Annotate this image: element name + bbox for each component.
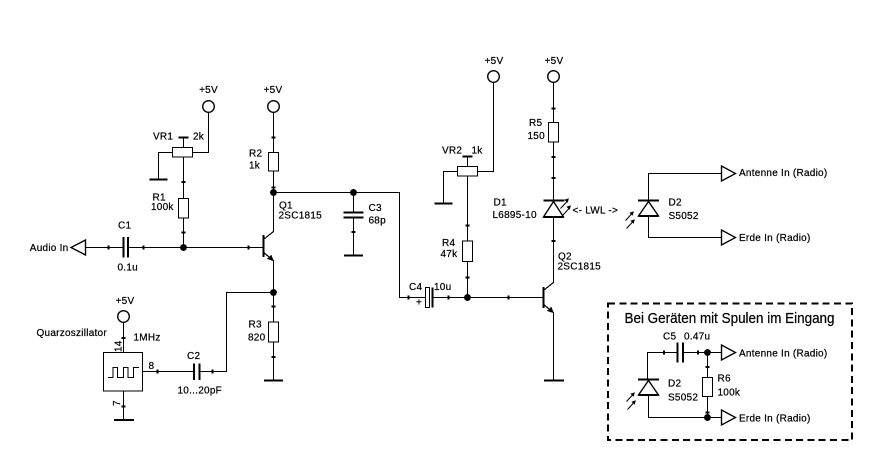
pin tick C2 right bbox=[212, 370, 214, 374]
wire D2 anode to Erde port bbox=[649, 216, 722, 238]
ground oscillator bbox=[114, 419, 134, 421]
wire Antenne node to R6 bbox=[707, 353, 709, 378]
svg-text:2k: 2k bbox=[193, 132, 205, 143]
svg-text:Audio In: Audio In bbox=[30, 243, 69, 254]
resistor R6 100k bbox=[703, 374, 741, 399]
svg-text:R5: R5 bbox=[529, 118, 542, 129]
svg-text:100k: 100k bbox=[718, 388, 741, 399]
pin tick D1 bottom bbox=[552, 240, 556, 242]
wire C5 to Antenne node bbox=[683, 352, 722, 354]
wire oscillator pin 8 to C2 bbox=[143, 371, 194, 373]
pin tick VR1 wiper bbox=[182, 181, 186, 183]
pin tick R5 top bbox=[552, 108, 556, 110]
svg-text:C2: C2 bbox=[187, 351, 200, 362]
pin tick R3 top bbox=[272, 306, 276, 308]
pin tick R2 top bbox=[272, 137, 276, 139]
pin tick R2 bottom bbox=[272, 187, 276, 189]
pin tick R1 bottom bbox=[182, 232, 186, 234]
pin tick C5 right bbox=[697, 351, 699, 355]
pin tick VR2 wiper bbox=[466, 225, 470, 227]
svg-text:+5V: +5V bbox=[485, 56, 504, 67]
capacitor C1 bbox=[118, 221, 138, 274]
svg-text:1k: 1k bbox=[472, 146, 484, 157]
potentiometer VR1 2k bbox=[153, 132, 205, 158]
pin tick oscillator pin 14 bbox=[122, 337, 126, 339]
svg-text:D1: D1 bbox=[494, 198, 507, 209]
pin tick R5 bottom bbox=[552, 156, 556, 158]
resistor R3 820 bbox=[248, 320, 279, 344]
capacitor C2 10...20pF bbox=[178, 351, 223, 397]
power +5V (oscillator) bbox=[116, 296, 135, 322]
wire oscillator pin 7 to ground bbox=[123, 391, 125, 420]
junction node Q1 emitter bbox=[270, 289, 277, 296]
svg-text:R6: R6 bbox=[718, 374, 731, 385]
svg-text:Quarzoszillator: Quarzoszillator bbox=[37, 328, 108, 339]
capacitor C5 0.47u bbox=[663, 332, 710, 363]
LED D1 L6895-10 bbox=[493, 198, 565, 222]
junction node Q1 collector bbox=[270, 189, 277, 196]
transistor Q2 2SC1815 bbox=[544, 252, 602, 381]
port Erde In (Radio) bbox=[722, 230, 811, 245]
svg-text:Bei Geräten mit Spulen im Eing: Bei Geräten mit Spulen im Eingang bbox=[625, 310, 835, 327]
svg-text:1k: 1k bbox=[249, 161, 261, 172]
wire collector node to C4 corner bbox=[274, 193, 426, 298]
light arrows D2 box bbox=[627, 392, 636, 409]
OUT-SECTION bbox=[626, 166, 828, 245]
svg-text:10...20pF: 10...20pF bbox=[178, 386, 223, 397]
wire D2 cathode to Antenne port bbox=[649, 174, 722, 201]
svg-text:0.47u: 0.47u bbox=[684, 332, 710, 343]
wire R5 bottom to D1 bbox=[553, 142, 555, 200]
pin tick C3 bottom bbox=[352, 231, 356, 233]
pin tick C5 left bbox=[663, 351, 665, 355]
ground VR1 bbox=[150, 179, 168, 181]
wire +5V to R2 bbox=[273, 113, 275, 153]
svg-text:S5052: S5052 bbox=[669, 211, 699, 222]
wire emitter node to R3 bbox=[273, 293, 275, 323]
pin tick C1 left bbox=[108, 246, 110, 250]
pin tick Q1 base bbox=[248, 246, 250, 250]
port Erde In (Radio) box bbox=[722, 410, 811, 425]
svg-text:S5052: S5052 bbox=[668, 393, 698, 404]
svg-text:Erde In (Radio): Erde In (Radio) bbox=[739, 414, 811, 425]
wire C1 to Q1 base bbox=[129, 247, 263, 249]
svg-text:+: + bbox=[416, 298, 422, 309]
wire Audio In to C1 bbox=[86, 247, 124, 249]
wire +5V to R5 bbox=[553, 83, 555, 123]
junction node Antenne bbox=[704, 349, 711, 356]
BOX-SECTION bbox=[608, 304, 852, 441]
svg-text:D2: D2 bbox=[668, 379, 681, 390]
wire box left top bbox=[648, 353, 678, 380]
potentiometer VR2 1k bbox=[442, 146, 483, 177]
light arrows D2 bbox=[626, 211, 635, 228]
wire R3 bottom to ground bbox=[273, 342, 275, 380]
dashed frame Bei Geraeten box bbox=[608, 304, 852, 441]
wire C3 bottom to ground bbox=[353, 218, 355, 256]
svg-text:C4: C4 bbox=[409, 282, 422, 293]
svg-text:R4: R4 bbox=[442, 238, 455, 249]
svg-text:<- LWL ->: <- LWL -> bbox=[573, 206, 619, 217]
svg-text:+5V: +5V bbox=[116, 296, 135, 307]
junction node R1/C1 bbox=[180, 244, 187, 251]
svg-text:1MHz: 1MHz bbox=[134, 333, 161, 344]
ground R3 bbox=[264, 380, 283, 382]
pin tick Q2 base bbox=[508, 296, 510, 300]
svg-text:Erde In (Radio): Erde In (Radio) bbox=[739, 233, 811, 244]
svg-text:68p: 68p bbox=[369, 216, 387, 227]
ground Q2 bbox=[544, 380, 564, 382]
pin tick R6 top bbox=[706, 366, 710, 368]
wire VR1 right to +5V bbox=[193, 113, 209, 153]
svg-text:VR1: VR1 bbox=[153, 132, 173, 143]
svg-text:+5V: +5V bbox=[199, 85, 218, 96]
svg-text:820: 820 bbox=[248, 333, 266, 344]
pin tick D1 top bbox=[552, 177, 556, 179]
power +5V (VR1) bbox=[199, 85, 218, 112]
wire R4 top to VR2 wiper bbox=[467, 176, 469, 241]
Q1-SECTION bbox=[248, 85, 322, 381]
pin tick R4 bottom bbox=[466, 277, 470, 279]
wire VR2 left to ground bbox=[444, 172, 458, 204]
photodiode D2 S5052 box bbox=[638, 379, 698, 404]
svg-text:150: 150 bbox=[528, 131, 546, 142]
OSC-SECTION bbox=[37, 293, 274, 421]
transistor Q1 2SC1815 bbox=[264, 193, 323, 293]
pin tick C4 left bbox=[408, 296, 410, 300]
svg-text:Antenne In (Radio): Antenne In (Radio) bbox=[739, 349, 827, 360]
svg-text:R3: R3 bbox=[249, 320, 262, 331]
photodiode D2 S5052 bbox=[638, 198, 699, 223]
resistor R1 100k bbox=[151, 193, 189, 219]
svg-text:+5V: +5V bbox=[264, 85, 283, 96]
port Antenne In (Radio) bbox=[722, 166, 828, 181]
wire D1 to Q2 collector bbox=[553, 217, 555, 282]
svg-text:R2: R2 bbox=[249, 149, 262, 160]
svg-text:L6895-10: L6895-10 bbox=[493, 210, 537, 221]
power +5V (VR2) bbox=[485, 56, 504, 82]
wire C4 right to Q2 base bbox=[433, 297, 544, 299]
LED-SECTION bbox=[493, 56, 619, 381]
wire R6 bottom to Erde node bbox=[707, 397, 709, 418]
svg-text:C5: C5 bbox=[663, 332, 676, 343]
wire +5V to oscillator pin 14 bbox=[123, 323, 125, 353]
resistor R2 1k bbox=[249, 149, 279, 172]
svg-text:7: 7 bbox=[112, 400, 123, 406]
ground C3 bbox=[344, 255, 363, 257]
oscillator U1 Quarzoszillator bbox=[37, 328, 143, 391]
resistor R5 150 bbox=[528, 118, 559, 142]
wire VR1 left to ground bbox=[159, 153, 173, 179]
wire D2 anode to Erde wire bbox=[649, 395, 722, 418]
svg-text:Antenne In (Radio): Antenne In (Radio) bbox=[739, 168, 827, 179]
svg-text:8: 8 bbox=[149, 361, 155, 372]
port Audio In bbox=[30, 240, 86, 255]
port Antenne In (Radio) box bbox=[722, 345, 828, 360]
pin tick C1 right bbox=[143, 246, 145, 250]
svg-text:+5V: +5V bbox=[545, 56, 564, 67]
resistor R4 47k bbox=[441, 238, 473, 262]
wire C3 top bbox=[353, 193, 355, 213]
capacitor C4 10u electrolytic bbox=[409, 282, 451, 309]
svg-text:VR2: VR2 bbox=[442, 146, 462, 157]
junction node Erde bbox=[704, 414, 711, 421]
svg-text:10u: 10u bbox=[434, 282, 451, 293]
junction node C3 top bbox=[350, 189, 357, 196]
capacitor C3 68p bbox=[344, 203, 387, 227]
svg-text:2SC1815: 2SC1815 bbox=[279, 211, 323, 222]
wire R1 top to VR1 wiper bbox=[183, 157, 185, 199]
wire R4 bottom bbox=[467, 262, 469, 298]
ground VR2 bbox=[435, 203, 453, 205]
power +5V (R2) bbox=[264, 85, 283, 112]
svg-text:D2: D2 bbox=[669, 198, 682, 209]
MID-SECTION bbox=[274, 56, 544, 309]
svg-text:100k: 100k bbox=[151, 202, 174, 213]
INPUT-SECTION bbox=[30, 85, 263, 274]
wire R2 bottom to collector node bbox=[273, 171, 275, 193]
wire C2 to Q1 emitter node bbox=[200, 293, 274, 372]
svg-text:14: 14 bbox=[114, 340, 125, 352]
power +5V (R5) bbox=[545, 56, 564, 82]
wire VR2 right to +5V bbox=[478, 83, 494, 172]
svg-text:C1: C1 bbox=[118, 221, 131, 232]
pin tick R6 bottom bbox=[706, 412, 710, 414]
junction node R4 bottom bbox=[464, 294, 471, 301]
svg-text:2SC1815: 2SC1815 bbox=[558, 262, 602, 273]
svg-text:C3: C3 bbox=[369, 203, 382, 214]
wire R1 bottom bbox=[183, 218, 185, 248]
pin tick R3 bottom bbox=[272, 356, 276, 358]
pin tick pin 7 bbox=[122, 406, 126, 408]
pin tick pin 8 bbox=[157, 370, 159, 374]
svg-text:47k: 47k bbox=[441, 249, 459, 260]
svg-text:0.1u: 0.1u bbox=[118, 263, 138, 274]
pin tick C4 right bbox=[448, 296, 450, 300]
light arrows D1 bbox=[561, 198, 571, 215]
